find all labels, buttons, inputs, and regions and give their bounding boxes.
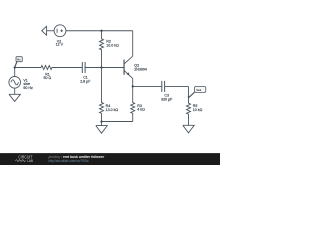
svg-text:10 kΩ: 10 kΩ	[193, 108, 203, 112]
svg-text:12 V: 12 V	[56, 43, 64, 47]
svg-text:13.0 kΩ: 13.0 kΩ	[106, 108, 119, 112]
svg-text:10.0 kΩ: 10.0 kΩ	[106, 43, 119, 47]
svg-text:50 Ω: 50 Ω	[44, 76, 52, 80]
svg-text:60 Hz: 60 Hz	[23, 86, 33, 90]
svg-text:4 kΩ: 4 kΩ	[137, 107, 145, 111]
svg-text:http //circuitlab.com/ce/7f93d: http //circuitlab.com/ce/7f93d	[49, 159, 89, 163]
svg-text:2.8 µF: 2.8 µF	[80, 80, 91, 84]
svg-text:LAB: LAB	[27, 159, 33, 163]
svg-text:2N3904: 2N3904	[134, 67, 147, 71]
svg-text:Vin: Vin	[17, 58, 21, 61]
svg-text:330 µF: 330 µF	[161, 97, 173, 101]
svg-text:Vout: Vout	[196, 89, 201, 92]
